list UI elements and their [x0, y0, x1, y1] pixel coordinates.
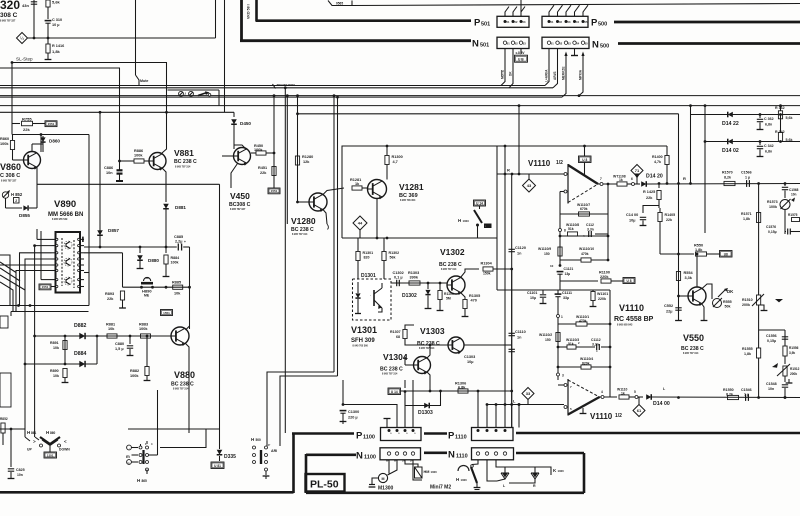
svg-text:P: P — [474, 18, 481, 29]
svg-text:H: H — [458, 218, 461, 223]
svg-text:V1281: V1281 — [399, 182, 424, 192]
svg-text:R1556: R1556 — [789, 346, 799, 350]
svg-text:820: 820 — [364, 256, 370, 260]
svg-text:V860: V860 — [0, 162, 21, 172]
svg-text:1300: 1300 — [461, 478, 468, 482]
svg-text:R: R — [533, 484, 536, 488]
svg-text:m: m — [126, 454, 130, 459]
svg-text:U B: U B — [518, 57, 524, 61]
svg-text:R1405: R1405 — [665, 213, 676, 217]
svg-text:68: 68 — [396, 335, 400, 339]
svg-text:3,9k: 3,9k — [789, 351, 795, 355]
svg-text:+: + — [184, 240, 186, 244]
svg-text:ARI/S: ARI/S — [553, 71, 557, 80]
svg-text:C825: C825 — [16, 468, 25, 472]
svg-text:5M: 5M — [446, 297, 451, 301]
svg-text:R: R — [507, 168, 510, 173]
svg-text:1 µ: 1 µ — [744, 393, 749, 397]
svg-text:▫: ▫ — [485, 225, 486, 228]
svg-text:L+ARI/A: L+ARI/A — [545, 69, 549, 82]
svg-text:V550: V550 — [683, 333, 704, 343]
svg-text:U 14: U 14 — [476, 201, 483, 205]
svg-text:220 µ: 220 µ — [348, 416, 358, 420]
svg-text:VKD 58 I: VKD 58 I — [247, 4, 251, 19]
svg-text:C112: C112 — [586, 223, 594, 227]
svg-text:C14 00: C14 00 — [626, 213, 638, 217]
svg-text:V1304: V1304 — [383, 352, 408, 362]
svg-text:6,8k: 6,8k — [458, 386, 466, 390]
svg-text:1/2: 1/2 — [615, 413, 622, 419]
svg-text:H: H — [27, 430, 30, 435]
svg-text:61: 61 — [637, 408, 642, 413]
svg-text:8 905 707 314: 8 905 707 314 — [382, 373, 398, 376]
svg-text:1551: 1551 — [42, 285, 49, 289]
svg-text:3,3n: 3,3n — [592, 343, 599, 347]
svg-text:1k: 1k — [619, 178, 623, 182]
svg-text:CD: CD — [127, 463, 131, 465]
svg-text:50k: 50k — [725, 305, 731, 309]
svg-text:D14 20: D14 20 — [646, 174, 663, 180]
svg-text:8 905 787 327: 8 905 787 327 — [230, 208, 246, 211]
svg-text:C1101: C1101 — [527, 291, 537, 295]
svg-text:D882: D882 — [74, 323, 87, 329]
svg-text:SL-Step: SL-Step — [16, 57, 33, 62]
svg-text:100k: 100k — [769, 205, 777, 209]
svg-text:5,6k: 5,6k — [786, 116, 793, 120]
svg-text:R883: R883 — [139, 323, 148, 327]
svg-text:501: 501 — [480, 43, 489, 49]
svg-text:1 µ: 1 µ — [745, 176, 750, 180]
svg-text:DK: DK — [727, 289, 734, 294]
svg-text:0,15µ: 0,15µ — [767, 339, 776, 343]
svg-text:D14 00: D14 00 — [653, 401, 670, 407]
svg-text:V1303: V1303 — [420, 326, 445, 336]
svg-text:R1307: R1307 — [390, 330, 401, 334]
svg-text:4,7k: 4,7k — [654, 160, 661, 164]
svg-text:R 1416: R 1416 — [52, 44, 64, 48]
svg-text:D1301: D1301 — [361, 273, 376, 279]
svg-text:1100: 1100 — [363, 435, 375, 441]
svg-text:N: N — [448, 450, 455, 461]
svg-text:D14 22: D14 22 — [722, 121, 739, 127]
svg-text:1551: 1551 — [47, 453, 54, 457]
svg-text:UP: UP — [27, 448, 32, 452]
svg-text:D450: D450 — [240, 121, 251, 126]
svg-text:10µ: 10µ — [467, 360, 473, 364]
svg-text:R554: R554 — [684, 271, 694, 275]
svg-text:390k: 390k — [410, 276, 419, 280]
svg-text:⌱8,5V: ⌱8,5V — [516, 51, 526, 55]
svg-text:0,1 µ: 0,1 µ — [394, 276, 403, 280]
svg-text:D881: D881 — [175, 205, 186, 210]
svg-text:MERKZE: MERKZE — [562, 67, 566, 80]
svg-text:8 945 705 360: 8 945 705 360 — [353, 345, 369, 348]
svg-text:D855: D855 — [19, 213, 30, 218]
svg-text:5,6k: 5,6k — [786, 138, 793, 142]
svg-text:1303: 1303 — [463, 219, 470, 223]
svg-text:W1110/9: W1110/9 — [538, 247, 551, 251]
svg-text:10k: 10k — [53, 346, 59, 350]
svg-text:1/2: 1/2 — [556, 160, 563, 166]
svg-text:C1576: C1576 — [766, 225, 776, 229]
svg-text:U 14: U 14 — [391, 390, 398, 394]
svg-text:H 852: H 852 — [11, 192, 23, 197]
svg-text:H: H — [46, 430, 49, 435]
svg-text:200k: 200k — [790, 372, 797, 376]
svg-text:8 905 905 843: 8 905 905 843 — [617, 324, 633, 327]
svg-text:C1566: C1566 — [741, 171, 752, 175]
svg-text:R 1425: R 1425 — [643, 190, 655, 194]
svg-text:R1570: R1570 — [722, 171, 733, 175]
svg-text:43n: 43n — [22, 3, 29, 8]
svg-text:D1303: D1303 — [418, 410, 433, 416]
svg-text:13µ: 13µ — [565, 272, 571, 276]
svg-text:470k: 470k — [579, 319, 587, 323]
svg-text:D14 02: D14 02 — [722, 148, 739, 154]
svg-text:22k: 22k — [666, 218, 672, 222]
svg-text:V1301: V1301 — [351, 325, 377, 335]
svg-text:U8: U8 — [724, 252, 728, 256]
svg-text:0,15µ: 0,15µ — [768, 230, 777, 234]
svg-text:8 905 955 539: 8 905 955 539 — [52, 218, 68, 221]
svg-text:R852: R852 — [0, 417, 8, 421]
svg-text:C1111: C1111 — [562, 291, 572, 295]
svg-text:R1510: R1510 — [742, 298, 753, 302]
svg-text:C 310: C 310 — [52, 18, 62, 22]
svg-text:V1280: V1280 — [291, 216, 316, 226]
svg-text:5,6k: 5,6k — [52, 0, 61, 5]
svg-text:C1110: C1110 — [515, 330, 526, 334]
svg-text:8,2k: 8,2k — [724, 176, 731, 180]
svg-text:1,5 µ: 1,5 µ — [115, 347, 124, 351]
svg-text:R1302: R1302 — [389, 251, 400, 255]
svg-text:1300: 1300 — [431, 470, 438, 474]
svg-text:8 905 707 314: 8 905 707 314 — [441, 268, 457, 271]
svg-text:V1110: V1110 — [590, 412, 613, 421]
svg-text:D1302: D1302 — [402, 293, 417, 299]
svg-text:V881: V881 — [174, 148, 194, 158]
svg-text:1551: 1551 — [271, 189, 278, 193]
svg-text:C1112: C1112 — [591, 338, 601, 342]
svg-text:0565: 0565 — [336, 2, 343, 6]
svg-text:10 µ: 10 µ — [52, 23, 59, 27]
svg-text:R890: R890 — [50, 369, 59, 373]
svg-text:150: 150 — [545, 338, 551, 342]
svg-text:C 362: C 362 — [764, 117, 774, 121]
svg-text:150: 150 — [544, 252, 550, 256]
svg-text:860: 860 — [50, 431, 56, 435]
svg-text:470k: 470k — [581, 252, 589, 256]
svg-text:1551: 1551 — [48, 122, 55, 126]
svg-text:R 342: R 342 — [775, 130, 785, 134]
svg-text:10: 10 — [550, 264, 554, 268]
svg-text:R1573: R1573 — [767, 200, 778, 204]
svg-text:500: 500 — [598, 22, 607, 28]
svg-text:C1300: C1300 — [348, 410, 359, 414]
svg-text:R: R — [683, 176, 686, 181]
svg-text:Mini7 M2: Mini7 M2 — [430, 485, 451, 491]
svg-text:C 308 C: C 308 C — [0, 173, 20, 179]
svg-text:R1400: R1400 — [652, 155, 663, 159]
svg-text:U 81: U 81 — [214, 464, 221, 468]
svg-text:P: P — [448, 431, 455, 442]
svg-text:W1110/4: W1110/4 — [580, 357, 593, 361]
svg-text:1110: 1110 — [456, 454, 468, 460]
svg-text:12k: 12k — [303, 160, 310, 164]
svg-text:100k: 100k — [171, 261, 179, 265]
svg-text:8 905 707 327: 8 905 707 327 — [0, 20, 16, 23]
svg-text:100k: 100k — [254, 148, 263, 152]
svg-text:H: H — [137, 478, 140, 483]
svg-text:R1555: R1555 — [742, 347, 753, 351]
svg-text:8 905 787 327: 8 905 787 327 — [1, 180, 17, 183]
svg-text:R882: R882 — [130, 369, 139, 373]
svg-text:Mute: Mute — [140, 79, 148, 83]
svg-text:2: 2 — [15, 199, 17, 203]
svg-text:220k: 220k — [600, 275, 609, 279]
svg-text:10n: 10n — [791, 193, 797, 197]
svg-text:PL-50: PL-50 — [310, 479, 339, 491]
svg-text:861: 861 — [31, 431, 37, 435]
svg-text:1,8k: 1,8k — [744, 352, 751, 356]
svg-text:6,8n: 6,8n — [765, 123, 772, 127]
svg-text:501: 501 — [481, 22, 490, 28]
svg-text:R884: R884 — [171, 256, 180, 260]
svg-text:P: P — [591, 18, 598, 29]
svg-text:10k: 10k — [174, 292, 181, 296]
svg-text:HM: HM — [424, 470, 430, 474]
svg-text:100k: 100k — [134, 154, 143, 158]
svg-text:22k: 22k — [107, 297, 114, 301]
svg-text:4,7: 4,7 — [393, 160, 398, 164]
svg-text:1: 1 — [561, 315, 563, 319]
svg-text:U 8: U 8 — [582, 158, 587, 162]
svg-text:R1512: R1512 — [790, 367, 800, 371]
svg-text:R755: R755 — [22, 117, 32, 122]
svg-text:C1303: C1303 — [464, 355, 475, 359]
svg-text:C552: C552 — [664, 304, 673, 308]
svg-text:1n: 1n — [517, 252, 522, 256]
svg-text:D880: D880 — [148, 258, 159, 263]
svg-text:>: > — [33, 439, 36, 444]
svg-text:8 905 707 314: 8 905 707 314 — [292, 233, 308, 236]
svg-text:22k: 22k — [23, 127, 30, 132]
svg-text:865: 865 — [142, 479, 148, 483]
svg-text:1551: 1551 — [163, 311, 170, 315]
svg-text:/WA/WA/R/DI: /WA/WA/R/DI — [277, 83, 295, 87]
svg-text:8 905 707 314: 8 905 707 314 — [683, 352, 699, 355]
svg-text:10µ: 10µ — [629, 219, 635, 223]
svg-text:D335: D335 — [224, 454, 236, 460]
svg-text:C1121: C1121 — [564, 267, 574, 271]
svg-text:V1110: V1110 — [619, 303, 644, 313]
svg-text:100k: 100k — [130, 374, 139, 378]
svg-text:<: < — [64, 439, 67, 444]
svg-text:R555: R555 — [723, 300, 732, 304]
svg-text:100k: 100k — [139, 327, 148, 331]
svg-text:R1305: R1305 — [469, 294, 480, 298]
svg-text:C1548: C1548 — [766, 382, 777, 386]
svg-text:320: 320 — [0, 0, 20, 12]
svg-text:C 342: C 342 — [764, 144, 774, 148]
svg-text:22k: 22k — [646, 196, 653, 200]
svg-text:M: M — [382, 477, 385, 481]
svg-text:1n: 1n — [517, 336, 522, 340]
svg-text:5: 5 — [634, 390, 636, 394]
svg-text:308 C: 308 C — [0, 12, 18, 19]
svg-text:670k: 670k — [580, 207, 588, 211]
svg-text:V450: V450 — [230, 191, 250, 201]
svg-text:R886: R886 — [134, 149, 143, 153]
svg-text:10µ: 10µ — [530, 296, 536, 300]
svg-text:10k: 10k — [108, 327, 115, 331]
svg-text:1100: 1100 — [364, 455, 376, 461]
svg-text:P: P — [356, 431, 363, 442]
svg-text:R1571: R1571 — [741, 212, 752, 216]
svg-text:N: N — [356, 451, 363, 462]
svg-text:7: 7 — [600, 177, 602, 181]
svg-text:C885: C885 — [174, 235, 183, 239]
svg-text:H: H — [456, 477, 459, 482]
svg-text:M1300: M1300 — [378, 486, 394, 492]
svg-text:150k: 150k — [483, 272, 491, 276]
svg-text:D-: D- — [410, 460, 413, 463]
svg-text:C1120: C1120 — [515, 246, 526, 250]
svg-text:1k: 1k — [621, 392, 625, 396]
svg-text:V880: V880 — [174, 370, 195, 380]
svg-text:100k: 100k — [0, 142, 9, 146]
svg-text:8: 8 — [564, 229, 566, 233]
svg-text:43: 43 — [527, 183, 532, 188]
svg-text:R893: R893 — [105, 292, 114, 296]
svg-text:10n: 10n — [106, 171, 113, 175]
svg-text:R1300: R1300 — [392, 155, 403, 159]
svg-text:R451: R451 — [258, 166, 267, 170]
svg-text:R1301: R1301 — [363, 251, 374, 255]
svg-text:·: · — [370, 293, 371, 297]
svg-text:10k: 10k — [53, 374, 59, 378]
svg-text:W1101: W1101 — [597, 292, 608, 296]
svg-text:R1575: R1575 — [788, 213, 798, 217]
svg-text:220k: 220k — [598, 297, 606, 301]
svg-text:8 905 707 314: 8 905 707 314 — [175, 166, 191, 169]
svg-text:R550: R550 — [694, 244, 703, 248]
svg-text:RC 4558 BP: RC 4558 BP — [614, 316, 654, 323]
svg-text:C1568: C1568 — [789, 188, 799, 192]
svg-text:8 905 706 304: 8 905 706 304 — [400, 199, 416, 202]
svg-text:R1280: R1280 — [302, 155, 313, 159]
svg-text:V1302: V1302 — [440, 247, 465, 257]
svg-text:3: 3 — [562, 374, 564, 378]
svg-text:D884: D884 — [74, 351, 87, 357]
svg-text:2,2µ: 2,2µ — [175, 240, 182, 244]
svg-text:D857: D857 — [108, 228, 119, 233]
svg-text:·: · — [129, 446, 130, 450]
svg-text:56k: 56k — [390, 256, 396, 260]
svg-text:V890: V890 — [54, 199, 76, 210]
svg-text:1,8k: 1,8k — [52, 49, 61, 54]
svg-text:R1100: R1100 — [599, 271, 610, 275]
svg-text:SFH 309: SFH 309 — [351, 338, 375, 344]
svg-text:R1550: R1550 — [723, 388, 734, 392]
svg-text:DK: DK — [509, 71, 513, 76]
svg-text:C1556: C1556 — [766, 334, 777, 338]
svg-text:1110: 1110 — [455, 435, 467, 441]
svg-text:H: H — [251, 437, 254, 442]
svg-text:ARI: ARI — [271, 449, 277, 453]
svg-text:R881: R881 — [106, 323, 115, 327]
svg-text:R891: R891 — [50, 341, 59, 345]
svg-text:71: 71 — [635, 168, 640, 173]
svg-text:4: 4 — [601, 390, 603, 394]
svg-text:10n: 10n — [17, 473, 23, 477]
svg-text:8 905 707 314: 8 905 707 314 — [173, 388, 189, 391]
svg-text:3,3n: 3,3n — [587, 228, 594, 232]
svg-text:C1302: C1302 — [393, 271, 404, 275]
svg-text:R1303: R1303 — [408, 271, 419, 275]
svg-text:500: 500 — [256, 438, 262, 442]
svg-text:1,8k: 1,8k — [695, 248, 703, 252]
svg-text:W1110/10: W1110/10 — [579, 247, 594, 251]
svg-text:W1110/2: W1110/2 — [539, 333, 552, 337]
svg-text:BC 238 C: BC 238 C — [174, 159, 197, 165]
svg-text:33: 33 — [526, 391, 531, 396]
svg-text:ME: ME — [144, 294, 150, 298]
svg-text:C886: C886 — [104, 166, 113, 170]
svg-text:470: 470 — [471, 299, 477, 303]
svg-text:V1110: V1110 — [528, 159, 551, 168]
svg-text:33µ: 33µ — [563, 296, 569, 300]
svg-text:N: N — [472, 39, 479, 50]
svg-text:U 8: U 8 — [627, 279, 632, 283]
svg-text:R1304: R1304 — [481, 262, 493, 266]
svg-text:¼: ¼ — [20, 36, 24, 41]
svg-text:44: 44 — [358, 221, 363, 226]
svg-text:22k: 22k — [260, 171, 267, 175]
svg-text:51k: 51k — [568, 227, 574, 231]
svg-text:DOWN: DOWN — [59, 448, 70, 452]
svg-text:1300: 1300 — [558, 469, 565, 473]
svg-text:6,8n: 6,8n — [765, 150, 772, 154]
svg-text:R860: R860 — [0, 137, 9, 141]
svg-text:8,2k: 8,2k — [726, 393, 733, 397]
svg-text:10n: 10n — [768, 387, 774, 391]
svg-text:500: 500 — [600, 44, 609, 50]
svg-text:6: 6 — [631, 177, 633, 181]
svg-text:D860: D860 — [49, 139, 60, 144]
svg-text:3,3k: 3,3k — [685, 276, 693, 280]
svg-text:C880: C880 — [115, 342, 124, 346]
svg-text:8 905 707 314: 8 905 707 314 — [419, 347, 435, 350]
svg-text:N: N — [592, 40, 599, 51]
svg-text:0¹: 0¹ — [268, 443, 270, 447]
svg-text:200k: 200k — [742, 303, 750, 307]
svg-text:C1546: C1546 — [741, 388, 752, 392]
svg-text:R885: R885 — [172, 281, 181, 285]
svg-text:820k: 820k — [582, 362, 590, 366]
svg-text:51k: 51k — [568, 342, 574, 346]
svg-text:MPX/A: MPX/A — [579, 69, 583, 80]
svg-text:1,8k: 1,8k — [743, 217, 750, 221]
svg-text:22µ: 22µ — [666, 310, 672, 314]
